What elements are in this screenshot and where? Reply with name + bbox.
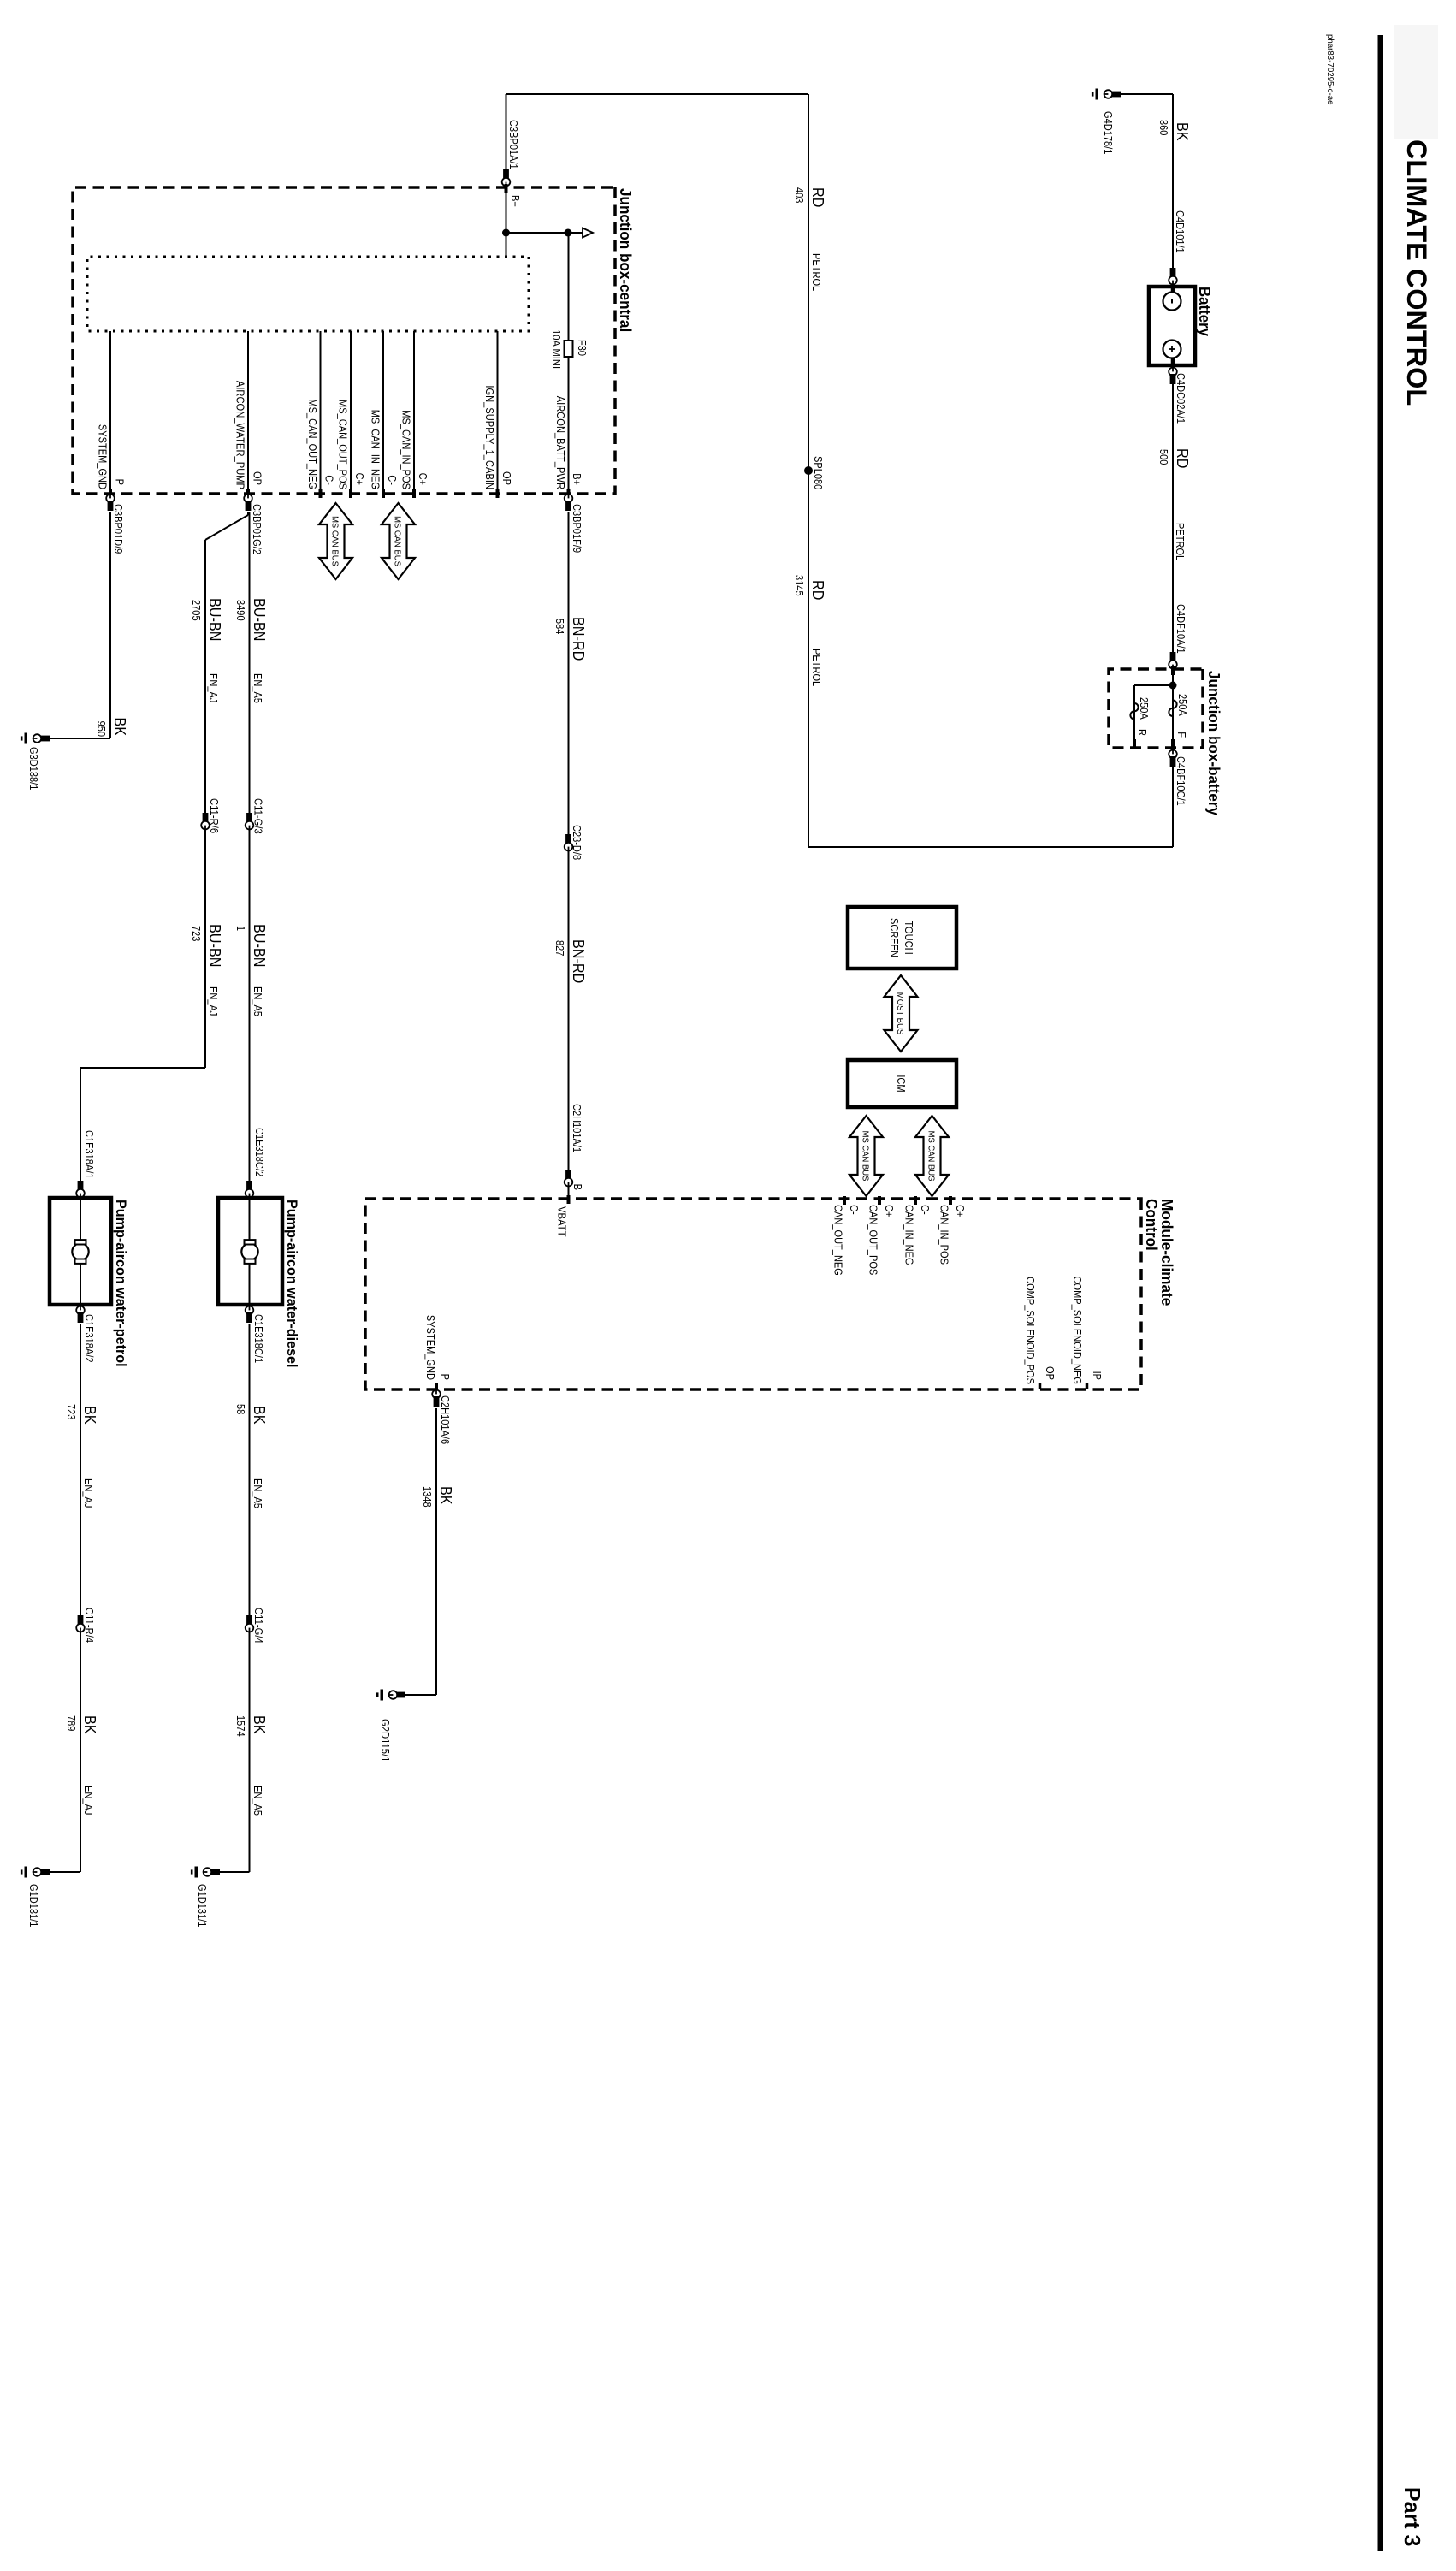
svg-text:C-: C- <box>919 1205 932 1215</box>
connector C2H101A/6 <box>432 1390 441 1399</box>
svg-text:BU-BN: BU-BN <box>206 924 223 967</box>
svg-text:C-: C- <box>848 1205 861 1215</box>
svg-text:BU-BN: BU-BN <box>251 924 268 967</box>
svg-text:F30: F30 <box>576 340 589 356</box>
svg-text:TOUCH: TOUCH <box>903 921 915 954</box>
svg-text:C4DC02A/1: C4DC02A/1 <box>1175 373 1187 424</box>
svg-text:EN_A5: EN_A5 <box>252 986 264 1016</box>
stub MS_CAN_IN_NEG pin C- <box>382 331 384 494</box>
svg-text:C3BP01D/9: C3BP01D/9 <box>112 504 125 554</box>
pin C+ CAN_OUT_POS <box>878 1196 881 1205</box>
svg-text:C4D101/1: C4D101/1 <box>1174 210 1187 253</box>
svg-text:BK: BK <box>251 1406 268 1425</box>
wire B+ to bus bar <box>506 187 507 257</box>
svg-text:C+: C+ <box>417 473 429 485</box>
svg-text:MS_CAN_OUT_POS: MS_CAN_OUT_POS <box>337 400 350 489</box>
svg-text:G1D131/1: G1D131/1 <box>27 1884 40 1927</box>
svg-text:1348: 1348 <box>421 1486 434 1508</box>
svg-text:AIRCON_WATER_PUMP: AIRCON_WATER_PUMP <box>234 381 247 489</box>
wire BK 360 ground to battery <box>1172 94 1174 287</box>
wire RD to junction box-central B+ <box>506 94 507 187</box>
stub AIRCON_WATER_PUMP pin OP <box>247 331 249 494</box>
connector C11-G/4 <box>246 1615 252 1626</box>
wire RD 500 battery to junction box-battery <box>1172 365 1174 669</box>
connector C4BF10C/1 <box>1169 750 1177 759</box>
svg-text:B: B <box>571 1184 584 1190</box>
stub MS_CAN_IN_POS pin C+ <box>413 331 415 494</box>
fuse 250A R <box>1130 703 1138 720</box>
svg-text:C4DF10A/1: C4DF10A/1 <box>1175 604 1187 654</box>
stub MS_CAN_OUT_NEG pin C- <box>320 331 322 494</box>
svg-text:C-: C- <box>323 475 336 485</box>
wire AIRCON_BATT_PWR inside box <box>568 233 570 494</box>
svg-text:723: 723 <box>190 926 203 941</box>
svg-text:Junction box-central: Junction box-central <box>617 188 634 332</box>
svg-text:584: 584 <box>553 619 566 634</box>
svg-text:EN_A5: EN_A5 <box>252 673 264 703</box>
svg-text:MS CAN BUS: MS CAN BUS <box>330 516 340 566</box>
junction box-battery enclosure <box>1109 669 1203 748</box>
svg-text:BK: BK <box>437 1486 454 1505</box>
node SPL junction in box <box>1172 669 1174 748</box>
pin C- CAN_IN_NEG <box>914 1196 917 1205</box>
wire BK 58 <box>249 1324 251 1615</box>
stub SYSTEM_GND pin P <box>109 331 111 494</box>
svg-text:phar83-70295-c-ae: phar83-70295-c-ae <box>1325 34 1335 105</box>
pin C- CAN_OUT_NEG <box>843 1196 846 1205</box>
svg-text:R: R <box>1136 729 1149 736</box>
svg-text:B+: B+ <box>509 195 522 207</box>
pin B+ AIRCON_BATT_PWR <box>567 489 571 498</box>
svg-text:MS_CAN_IN_NEG: MS_CAN_IN_NEG <box>370 410 382 489</box>
svg-text:250A: 250A <box>1138 697 1151 720</box>
svg-text:Junction box-battery: Junction box-battery <box>1205 671 1222 815</box>
svg-text:CAN_IN_POS: CAN_IN_POS <box>938 1205 951 1265</box>
svg-text:EN_A5: EN_A5 <box>252 1478 264 1508</box>
svg-text:Battery: Battery <box>1196 287 1213 336</box>
svg-text:C-: C- <box>386 475 399 485</box>
ground G2D115/1 <box>395 1692 405 1698</box>
svg-text:Module-climate: Module-climate <box>1158 1199 1175 1306</box>
svg-text:B+: B+ <box>571 473 583 485</box>
svg-text:MOST BUS: MOST BUS <box>895 992 905 1034</box>
svg-text:EN_AJ: EN_AJ <box>207 986 220 1016</box>
pin IP COMP_SOLENOID_NEG <box>1086 1383 1089 1389</box>
junction box-central enclosure <box>73 187 615 494</box>
svg-text:SYSTEM_GND: SYSTEM_GND <box>424 1315 437 1380</box>
svg-text:EN_AJ: EN_AJ <box>82 1478 95 1508</box>
motor symbol diesel pump <box>249 1198 251 1241</box>
svg-text:EN_A5: EN_A5 <box>252 1786 264 1816</box>
svg-text:BK: BK <box>251 1715 268 1734</box>
fuse F30 10A MINI <box>565 341 573 357</box>
pin OP COMP_SOLENOID_POS <box>1039 1383 1042 1389</box>
bus arrow MS CAN BUS (in pair) <box>382 503 415 579</box>
svg-text:C1E318A/1: C1E318A/1 <box>83 1130 96 1179</box>
splice SPL080 <box>804 466 813 475</box>
svg-text:COMP_SOLENOID_POS: COMP_SOLENOID_POS <box>1024 1277 1037 1384</box>
module ICM <box>848 1060 956 1107</box>
header rule bar <box>1378 35 1384 2551</box>
wire BU-BN 2705 <box>204 540 206 1068</box>
svg-text:VBATT: VBATT <box>556 1206 569 1237</box>
svg-text:250A: 250A <box>1176 694 1189 716</box>
connector C4DC02A/1 <box>1169 368 1177 376</box>
bus arrow MS CAN BUS (icm lower) <box>849 1116 883 1196</box>
svg-text:58: 58 <box>234 1404 247 1414</box>
svg-text:BU-BN: BU-BN <box>206 598 223 641</box>
svg-text:C3BP01G/2: C3BP01G/2 <box>251 504 263 554</box>
svg-text:Part 3: Part 3 <box>1400 2487 1425 2546</box>
svg-text:403: 403 <box>793 187 806 203</box>
svg-text:BK: BK <box>81 1406 98 1425</box>
svg-text:ICM: ICM <box>895 1075 908 1092</box>
svg-text:BK: BK <box>111 717 128 736</box>
svg-text:Control: Control <box>1143 1199 1160 1251</box>
bus arrow MS CAN BUS (icm upper) <box>915 1116 949 1196</box>
pin P SYSTEM_GND <box>435 1383 438 1392</box>
connector C11-R/6 <box>203 813 209 823</box>
connector C3BP01D/9 <box>106 495 115 503</box>
svg-text:500: 500 <box>1157 449 1170 465</box>
svg-text:IGN_SUPPLY_1_CABIN: IGN_SUPPLY_1_CABIN <box>483 385 496 489</box>
svg-text:COMP_SOLENOID_NEG: COMP_SOLENOID_NEG <box>1071 1277 1084 1385</box>
battery B1 <box>1149 287 1195 365</box>
svg-text:SPL080: SPL080 <box>812 456 825 489</box>
svg-text:C11-G/4: C11-G/4 <box>252 1608 265 1644</box>
pump-aircon water-petrol <box>50 1198 111 1305</box>
svg-text:Pump-aircon water-diesel: Pump-aircon water-diesel <box>284 1200 300 1368</box>
svg-text:PETROL: PETROL <box>810 649 823 686</box>
bus arrow MOST BUS <box>885 975 918 1052</box>
wire split diagonal <box>247 512 249 515</box>
svg-text:C11-R/4: C11-R/4 <box>83 1608 96 1643</box>
svg-text:C23-D/8: C23-D/8 <box>571 825 583 860</box>
svg-text:789: 789 <box>65 1715 78 1731</box>
module TOUCH SCREEN <box>848 907 956 969</box>
svg-text:3145: 3145 <box>793 575 806 596</box>
stub MS_CAN_OUT_POS pin C+ <box>350 331 352 494</box>
svg-text:MS_CAN_OUT_NEG: MS_CAN_OUT_NEG <box>306 399 319 489</box>
svg-text:IP: IP <box>1091 1371 1104 1380</box>
svg-text:G1D131/1: G1D131/1 <box>196 1884 209 1927</box>
connector C23-D/8 <box>565 834 571 844</box>
wire BK 1348 <box>435 1408 437 1695</box>
svg-text:C+: C+ <box>353 473 366 485</box>
svg-text:G2D115/1: G2D115/1 <box>379 1719 392 1762</box>
wire RD to corner <box>1172 767 1174 847</box>
svg-text:10A MINI: 10A MINI <box>550 329 563 369</box>
wire RD 403 / RD 3145 return run <box>808 94 809 847</box>
connector C11-G/3 <box>246 813 252 823</box>
svg-text:1574: 1574 <box>234 1715 247 1737</box>
svg-text:P: P <box>114 479 127 485</box>
node junction on B+ wire <box>502 229 510 237</box>
svg-text:OP: OP <box>252 471 264 485</box>
svg-text:2705: 2705 <box>190 600 203 621</box>
svg-text:P: P <box>439 1374 452 1380</box>
svg-text:CAN_OUT_POS: CAN_OUT_POS <box>867 1205 880 1276</box>
svg-text:C3BP01A/1: C3BP01A/1 <box>507 120 520 169</box>
svg-text:EN_AJ: EN_AJ <box>207 673 220 702</box>
pin C+ CAN_IN_POS <box>949 1196 952 1205</box>
pump-aircon water-diesel <box>218 1198 282 1305</box>
svg-text:G4D178/1: G4D178/1 <box>1102 111 1115 154</box>
svg-text:C11-R/6: C11-R/6 <box>208 798 221 833</box>
svg-text:OP: OP <box>500 471 513 485</box>
connector C3BP01F/9 <box>565 495 573 503</box>
pin B VBATT <box>567 1195 571 1204</box>
svg-text:C+: C+ <box>883 1205 896 1217</box>
stub IGN_SUPPLY_1_CABIN pin OP <box>497 331 499 494</box>
svg-text:C+: C+ <box>954 1205 967 1217</box>
svg-text:1: 1 <box>234 926 247 931</box>
svg-text:MS_CAN_IN_POS: MS_CAN_IN_POS <box>400 410 413 489</box>
pin entry junction box-battery <box>1171 666 1175 675</box>
svg-text:BU-BN: BU-BN <box>251 598 268 641</box>
svg-text:3490: 3490 <box>234 600 247 621</box>
svg-text:SYSTEM_GND: SYSTEM_GND <box>97 424 109 489</box>
svg-text:Pump-aircon water-petrol: Pump-aircon water-petrol <box>113 1200 129 1367</box>
module-climate control enclosure <box>365 1199 1141 1389</box>
node junction to AIRCON_BATT_PWR <box>565 229 572 237</box>
header light panel <box>1394 25 1438 139</box>
connector C1E318A/2 <box>76 1306 85 1315</box>
svg-text:827: 827 <box>553 940 566 956</box>
internal bus bar (dotted) <box>87 257 529 331</box>
ground G1D131/1 (petrol) <box>39 1869 50 1875</box>
svg-text:CAN_IN_NEG: CAN_IN_NEG <box>903 1205 916 1265</box>
svg-text:BK: BK <box>1174 122 1191 141</box>
motor symbol petrol pump <box>80 1198 81 1241</box>
wire BN-RD 584 <box>568 512 570 1170</box>
connector C3BP01G/2 <box>244 495 252 503</box>
svg-text:C11-G/3: C11-G/3 <box>252 798 265 834</box>
svg-text:PETROL: PETROL <box>1174 523 1187 560</box>
ground G3D138/1 <box>39 736 50 742</box>
wire BU-BN 3490 <box>249 512 251 1182</box>
svg-text:C3BP01F/9: C3BP01F/9 <box>571 504 583 553</box>
svg-text:SCREEN: SCREEN <box>888 918 901 957</box>
svg-text:950: 950 <box>95 721 108 737</box>
svg-text:C1E318C/1: C1E318C/1 <box>252 1314 265 1363</box>
svg-text:PETROL: PETROL <box>810 253 823 291</box>
svg-text:C1E318A/2: C1E318A/2 <box>83 1314 96 1363</box>
wire branch up with arrow <box>506 232 584 234</box>
svg-text:BN-RD: BN-RD <box>570 939 587 983</box>
wire BK 950 <box>109 512 111 738</box>
svg-text:CLIMATE CONTROL: CLIMATE CONTROL <box>1401 139 1432 406</box>
pin B+ entry <box>505 184 508 193</box>
svg-text:C4BF10C/1: C4BF10C/1 <box>1175 756 1187 806</box>
wire BK 723 <box>80 1324 81 1615</box>
connector C1E318C/1 <box>246 1306 254 1315</box>
svg-text:C2H101A/6: C2H101A/6 <box>439 1395 452 1444</box>
svg-text:723: 723 <box>65 1404 78 1419</box>
svg-text:OP: OP <box>1044 1366 1056 1380</box>
svg-text:BN-RD: BN-RD <box>570 617 587 661</box>
ground G1D131/1 (diesel) <box>210 1869 220 1875</box>
svg-text:CAN_OUT_NEG: CAN_OUT_NEG <box>832 1205 845 1276</box>
wire BK 789 <box>80 1632 81 1872</box>
svg-text:RD: RD <box>1174 448 1191 468</box>
bus arrow MS CAN BUS (out pair) <box>319 503 352 579</box>
ground G4D178/1 <box>1121 93 1173 95</box>
svg-text:MS CAN BUS: MS CAN BUS <box>926 1131 937 1182</box>
svg-text:RD: RD <box>809 580 826 600</box>
svg-text:F: F <box>1175 732 1188 738</box>
svg-text:BK: BK <box>81 1715 98 1734</box>
wire branch to fuse R <box>1134 684 1173 686</box>
svg-text:AIRCON_BATT_PWR: AIRCON_BATT_PWR <box>554 396 567 489</box>
svg-text:360: 360 <box>1157 120 1170 135</box>
connector C11-R/4 <box>78 1615 84 1626</box>
svg-text:C1E318C/2: C1E318C/2 <box>253 1128 266 1176</box>
svg-text:G3D138/1: G3D138/1 <box>27 747 40 790</box>
wire BK 1574 <box>249 1632 251 1872</box>
svg-text:C2H101A/1: C2H101A/1 <box>571 1104 583 1152</box>
svg-text:MS CAN BUS: MS CAN BUS <box>861 1131 871 1182</box>
svg-text:EN_AJ: EN_AJ <box>82 1786 95 1815</box>
svg-text:RD: RD <box>809 187 826 207</box>
fuse 250A F <box>1169 701 1176 717</box>
svg-text:MS CAN BUS: MS CAN BUS <box>393 516 403 566</box>
